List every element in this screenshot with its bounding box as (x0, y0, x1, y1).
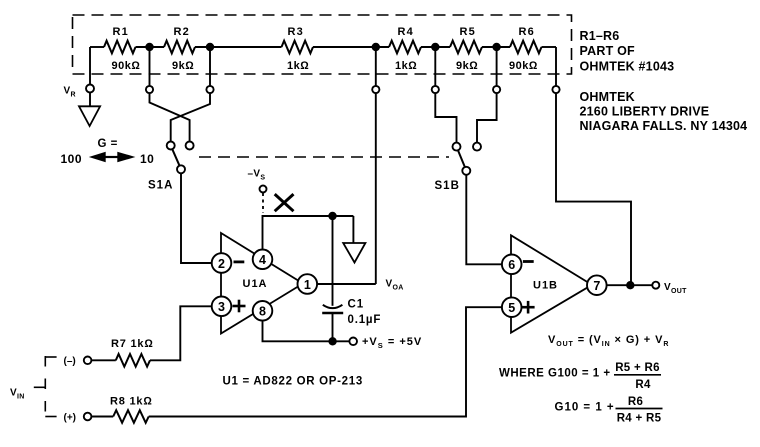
svg-text:U1B: U1B (533, 280, 558, 292)
resistor R7 (111, 338, 154, 367)
svg-text:G =: G = (98, 138, 118, 150)
label 100 (61, 152, 83, 166)
wire R1 left end down to V_R (89, 47, 91, 85)
svg-text:2: 2 (218, 257, 225, 271)
label +V_S = +5V (362, 336, 422, 350)
svg-text:R2: R2 (174, 26, 190, 38)
ground (U1A pin4) (343, 243, 365, 263)
svg-text:WHERE G100 = 1 +: WHERE G100 = 1 + (499, 368, 611, 380)
node pin4 ground junction (328, 212, 336, 220)
X cross-out mark (275, 194, 294, 211)
svg-text:90kΩ: 90kΩ (509, 60, 538, 72)
svg-text:9kΩ: 9kΩ (172, 60, 194, 72)
U1B pin 5 (502, 297, 522, 317)
node R3/R4 junction (372, 43, 380, 51)
svg-text:(–): (–) (64, 356, 76, 367)
U1B pin 6 (502, 254, 522, 274)
resistor R5 (450, 26, 482, 72)
S1B throw contact right (473, 143, 481, 151)
svg-text:1: 1 (304, 278, 311, 292)
svg-text:4: 4 (259, 253, 266, 267)
node C1 / +V_S junction (328, 337, 336, 345)
svg-text:6: 6 (508, 258, 515, 272)
S1B throw contact left (453, 143, 461, 151)
terminal tap 5 (S1B) (493, 86, 500, 93)
terminal (-) input (84, 357, 92, 365)
wire (-) to R7 (91, 359, 115, 361)
dashed gang coupling S1A-S1B (199, 156, 449, 158)
wire ground node down to C1 (332, 216, 334, 306)
svg-text:8: 8 (259, 305, 266, 319)
wire S1B feed from R5/R6 tap (477, 93, 497, 143)
wire R6 right end down (555, 47, 557, 86)
svg-text:R7 1kΩ: R7 1kΩ (111, 338, 154, 350)
svg-text:S1B: S1B (435, 180, 460, 192)
resistor R3 (282, 26, 314, 72)
svg-text:(+): (+) (64, 413, 77, 424)
wire R2-R3 (195, 46, 282, 48)
U1A pin 3 (212, 297, 232, 317)
svg-text:S1A: S1A (148, 180, 173, 192)
terminal V_OUT (652, 282, 659, 289)
wire V_OA tap down to U1A output (375, 93, 377, 284)
wire tap R5/R6 junction (496, 47, 498, 86)
wire U1A pin1 output to V_OA node (317, 283, 376, 285)
wire U1B output to V_OUT (606, 284, 652, 286)
resistor R4 (389, 26, 421, 72)
resistor network boundary (dashed box) (73, 15, 572, 74)
U1A pin 2 (212, 253, 232, 273)
wire R6 to feedback corner (542, 46, 557, 48)
U1A pin 1 (298, 274, 318, 294)
resistor R2 (164, 26, 195, 72)
node R2/R3 junction (206, 43, 214, 51)
formula G100 (499, 362, 661, 391)
svg-text:U1 = AD822 OR OP-213: U1 = AD822 OR OP-213 (223, 376, 363, 388)
ground (V_R) (79, 106, 100, 126)
label (-) input (64, 356, 76, 367)
svg-text:1kΩ: 1kΩ (395, 60, 417, 72)
wire tap R4/R5 junction (434, 47, 436, 86)
U1A plus sign (233, 300, 246, 313)
gain direction arrow (89, 152, 136, 163)
U1B pin 7 (587, 275, 607, 295)
terminal tap 4 (S1B) (432, 86, 439, 93)
svg-text:OHMTEK #1043: OHMTEK #1043 (580, 60, 675, 74)
terminal (+) input (84, 413, 92, 421)
svg-text:1kΩ: 1kΩ (287, 60, 309, 72)
S1B pole contact (462, 167, 470, 175)
wire tap R3/R4 junction (V_OA sense) (375, 47, 377, 86)
wire tap R2/R3 junction (209, 47, 211, 86)
wire S1A feed from R2/R3 tap (crossover) (171, 93, 210, 141)
wire R4-R5 (421, 46, 450, 48)
U1B minus sign (523, 260, 534, 263)
svg-text:R6: R6 (519, 26, 535, 38)
svg-text:OHMTEK: OHMTEK (580, 90, 635, 104)
label (+) input (64, 413, 77, 424)
wire R8 to U1B pin5 (149, 307, 503, 416)
wire V_R to R1 (90, 46, 104, 48)
svg-text:PART OF: PART OF (580, 44, 635, 58)
node R4/R5 junction (431, 43, 439, 51)
svg-text:R6: R6 (628, 396, 643, 408)
wire R1-R2 (136, 46, 165, 48)
svg-text:G10 = 1 +: G10 = 1 + (555, 402, 615, 414)
wire V_R to ground (89, 93, 91, 107)
S1B switch arm (458, 150, 465, 167)
node R1/R2 junction (145, 43, 153, 51)
S1A pole contact (177, 165, 185, 173)
wire R7 to U1A pin3 (150, 306, 212, 360)
wire feedback R6 to U1B output (556, 93, 631, 285)
label G = (98, 138, 118, 150)
V_IN tick (34, 386, 46, 388)
formula G10 (555, 396, 663, 424)
svg-text:3: 3 (218, 300, 225, 314)
svg-text:90kΩ: 90kΩ (112, 60, 141, 72)
note OHMTEK address (580, 90, 748, 133)
U1A pin 8 (253, 301, 273, 321)
svg-text:R5 + R6: R5 + R6 (615, 362, 660, 374)
label U1 = AD822 OR OP-213 (223, 376, 363, 388)
wire ground stub (352, 216, 354, 243)
wire (+) to R8 (91, 416, 113, 418)
wire S1B pole to U1B pin6 (466, 175, 502, 264)
node R5/R6 junction (492, 43, 500, 51)
label S1A (148, 180, 173, 192)
wire C1 to +V_S rail (332, 314, 334, 341)
svg-text:2160 LIBERTY DRIVE: 2160 LIBERTY DRIVE (580, 104, 710, 118)
U1A pin 4 (253, 249, 273, 269)
terminal tap 1 (S1A) (146, 86, 153, 93)
svg-text:5: 5 (508, 301, 515, 315)
svg-text:NIAGARA FALLS. NY 14304: NIAGARA FALLS. NY 14304 (580, 119, 748, 133)
wire tap R1/R2 junction (149, 47, 151, 86)
terminal tap 6 (feedback) (552, 86, 559, 93)
label -V_S (248, 169, 266, 182)
svg-text:R4: R4 (398, 26, 414, 38)
wire S1A feed from R1/R2 tap (crossover) (150, 93, 190, 143)
svg-text:R3: R3 (288, 26, 304, 38)
svg-text:10: 10 (140, 152, 154, 166)
svg-text:7: 7 (593, 279, 600, 293)
op-amp U1A body (221, 233, 303, 334)
wire U1A pin4 to ground rail (263, 216, 354, 250)
svg-text:100: 100 (61, 152, 83, 166)
V_IN bracket (dashed) (45, 356, 56, 417)
node U1B output / feedback junction (626, 281, 634, 289)
svg-text:R5: R5 (460, 26, 476, 38)
resistor R8 (110, 396, 153, 423)
label V_R (64, 86, 76, 99)
wire S1B feed from R4/R5 tap (435, 93, 456, 143)
terminal +V_S (349, 338, 357, 346)
svg-text:0.1µF: 0.1µF (348, 314, 382, 326)
wire R5-R6 (482, 46, 510, 48)
terminal tap 3 (V_OA) (372, 86, 379, 93)
resistor R1 (104, 26, 140, 72)
U1B plus sign (522, 301, 535, 314)
terminal tap 2 (S1A) (206, 86, 213, 93)
wire R3-R4 (313, 46, 389, 48)
label V_IN (10, 388, 25, 401)
note R1-R6 part of (580, 29, 675, 73)
wire U1A pin8 to +V_S rail (263, 320, 350, 341)
label S1B (435, 180, 460, 192)
label V_OA (386, 279, 404, 292)
svg-text:R1–R6: R1–R6 (580, 29, 620, 43)
S1A throw contact left (167, 142, 175, 150)
svg-text:9kΩ: 9kΩ (456, 60, 478, 72)
label 10 (140, 152, 154, 166)
svg-text:R4 + R5: R4 + R5 (617, 412, 662, 424)
label V_OUT (664, 282, 687, 295)
svg-text:R8 1kΩ: R8 1kΩ (110, 396, 153, 408)
op-amp U1B body (511, 235, 592, 332)
terminal -V_S (260, 186, 267, 193)
capacitor C1 (322, 299, 381, 327)
resistor R6 (509, 26, 542, 72)
svg-text:R1: R1 (113, 26, 129, 38)
wire S1A pole to U1A pin2 (181, 173, 212, 263)
svg-text:R4: R4 (635, 379, 651, 391)
svg-text:U1A: U1A (243, 278, 268, 290)
dotted no-connect stub -V_S (262, 193, 264, 213)
formula V_OUT (548, 334, 669, 348)
svg-text:C1: C1 (348, 299, 365, 311)
S1A throw contact right (186, 142, 194, 150)
terminal V_R (86, 85, 94, 93)
S1A switch arm (172, 149, 179, 166)
U1A minus sign (234, 260, 245, 263)
